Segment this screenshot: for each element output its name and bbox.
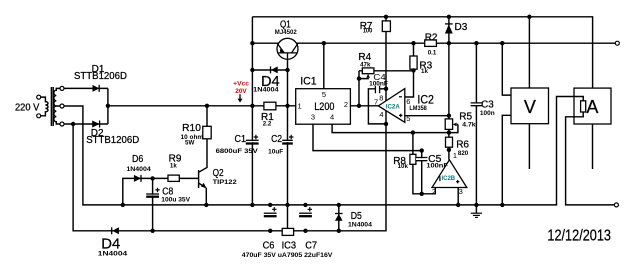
svg-text:820: 820 — [458, 150, 469, 157]
svg-text:1N4004: 1N4004 — [348, 222, 373, 229]
svg-text:6800uF 35V: 6800uF 35V — [216, 148, 259, 155]
svg-text:1k: 1k — [421, 68, 428, 75]
svg-text:2.2: 2.2 — [263, 121, 272, 128]
svg-text:4: 4 — [330, 112, 334, 121]
svg-text:100u 35V: 100u 35V — [161, 197, 191, 204]
svg-text:C6: C6 — [263, 241, 275, 252]
svg-text:IC3: IC3 — [282, 241, 297, 252]
svg-text:220 V: 220 V — [15, 102, 40, 113]
svg-text:IC2B: IC2B — [442, 175, 456, 182]
svg-text:1: 1 — [453, 151, 457, 160]
svg-text:Q2: Q2 — [213, 168, 224, 179]
svg-text:STTB1206D: STTB1206D — [74, 71, 127, 82]
svg-text:3: 3 — [459, 187, 463, 196]
svg-text:0.1: 0.1 — [428, 49, 437, 56]
svg-text:6: 6 — [406, 97, 410, 106]
svg-text:10k: 10k — [398, 163, 409, 170]
svg-text:1N4004: 1N4004 — [126, 166, 151, 173]
svg-text:20V: 20V — [235, 88, 247, 95]
svg-text:5: 5 — [406, 114, 410, 123]
svg-text:1N4004: 1N4004 — [253, 86, 279, 93]
svg-text:C2: C2 — [271, 134, 282, 145]
svg-text:5: 5 — [322, 90, 326, 99]
svg-text:47k: 47k — [360, 62, 371, 69]
svg-text:3: 3 — [311, 112, 315, 121]
svg-text:100n: 100n — [480, 110, 495, 117]
svg-text:MJ4502: MJ4502 — [275, 29, 297, 36]
svg-text:IC1: IC1 — [300, 76, 316, 88]
svg-text:1: 1 — [298, 102, 302, 111]
svg-text:R10: R10 — [182, 123, 201, 134]
svg-text:100nF: 100nF — [426, 162, 448, 169]
svg-text:LM358: LM358 — [409, 105, 427, 112]
svg-text:12/12/2013: 12/12/2013 — [547, 228, 611, 245]
svg-text:4: 4 — [379, 110, 383, 119]
svg-text:4.7k: 4.7k — [462, 121, 476, 128]
svg-text:2: 2 — [432, 187, 436, 196]
svg-text:A: A — [586, 97, 598, 117]
svg-text:10uF: 10uF — [268, 149, 283, 156]
svg-text:D6: D6 — [132, 154, 144, 165]
svg-text:100: 100 — [363, 28, 373, 35]
svg-text:D3: D3 — [455, 22, 468, 33]
svg-text:L200: L200 — [314, 101, 334, 113]
svg-text:1k: 1k — [170, 163, 177, 170]
svg-text:5W: 5W — [185, 139, 194, 146]
svg-text:R2: R2 — [425, 32, 438, 43]
svg-text:IC2A: IC2A — [386, 104, 401, 111]
svg-text:V: V — [524, 97, 536, 117]
svg-text:8: 8 — [379, 94, 383, 103]
svg-text:C1: C1 — [235, 134, 247, 145]
svg-text:7: 7 — [374, 98, 378, 107]
svg-text:STTB1206D: STTB1206D — [86, 135, 139, 146]
svg-text:1N4004: 1N4004 — [98, 251, 128, 258]
svg-text:TIP122: TIP122 — [213, 179, 238, 186]
svg-text:470uF 35V uA7905 22uF16V: 470uF 35V uA7905 22uF16V — [242, 252, 334, 259]
svg-text:+Vcc: +Vcc — [233, 80, 249, 87]
svg-text:C3: C3 — [481, 100, 494, 111]
svg-text:2: 2 — [344, 100, 348, 109]
svg-text:100nF: 100nF — [369, 80, 388, 87]
svg-text:C7: C7 — [305, 241, 317, 252]
svg-text:D5: D5 — [351, 211, 362, 222]
